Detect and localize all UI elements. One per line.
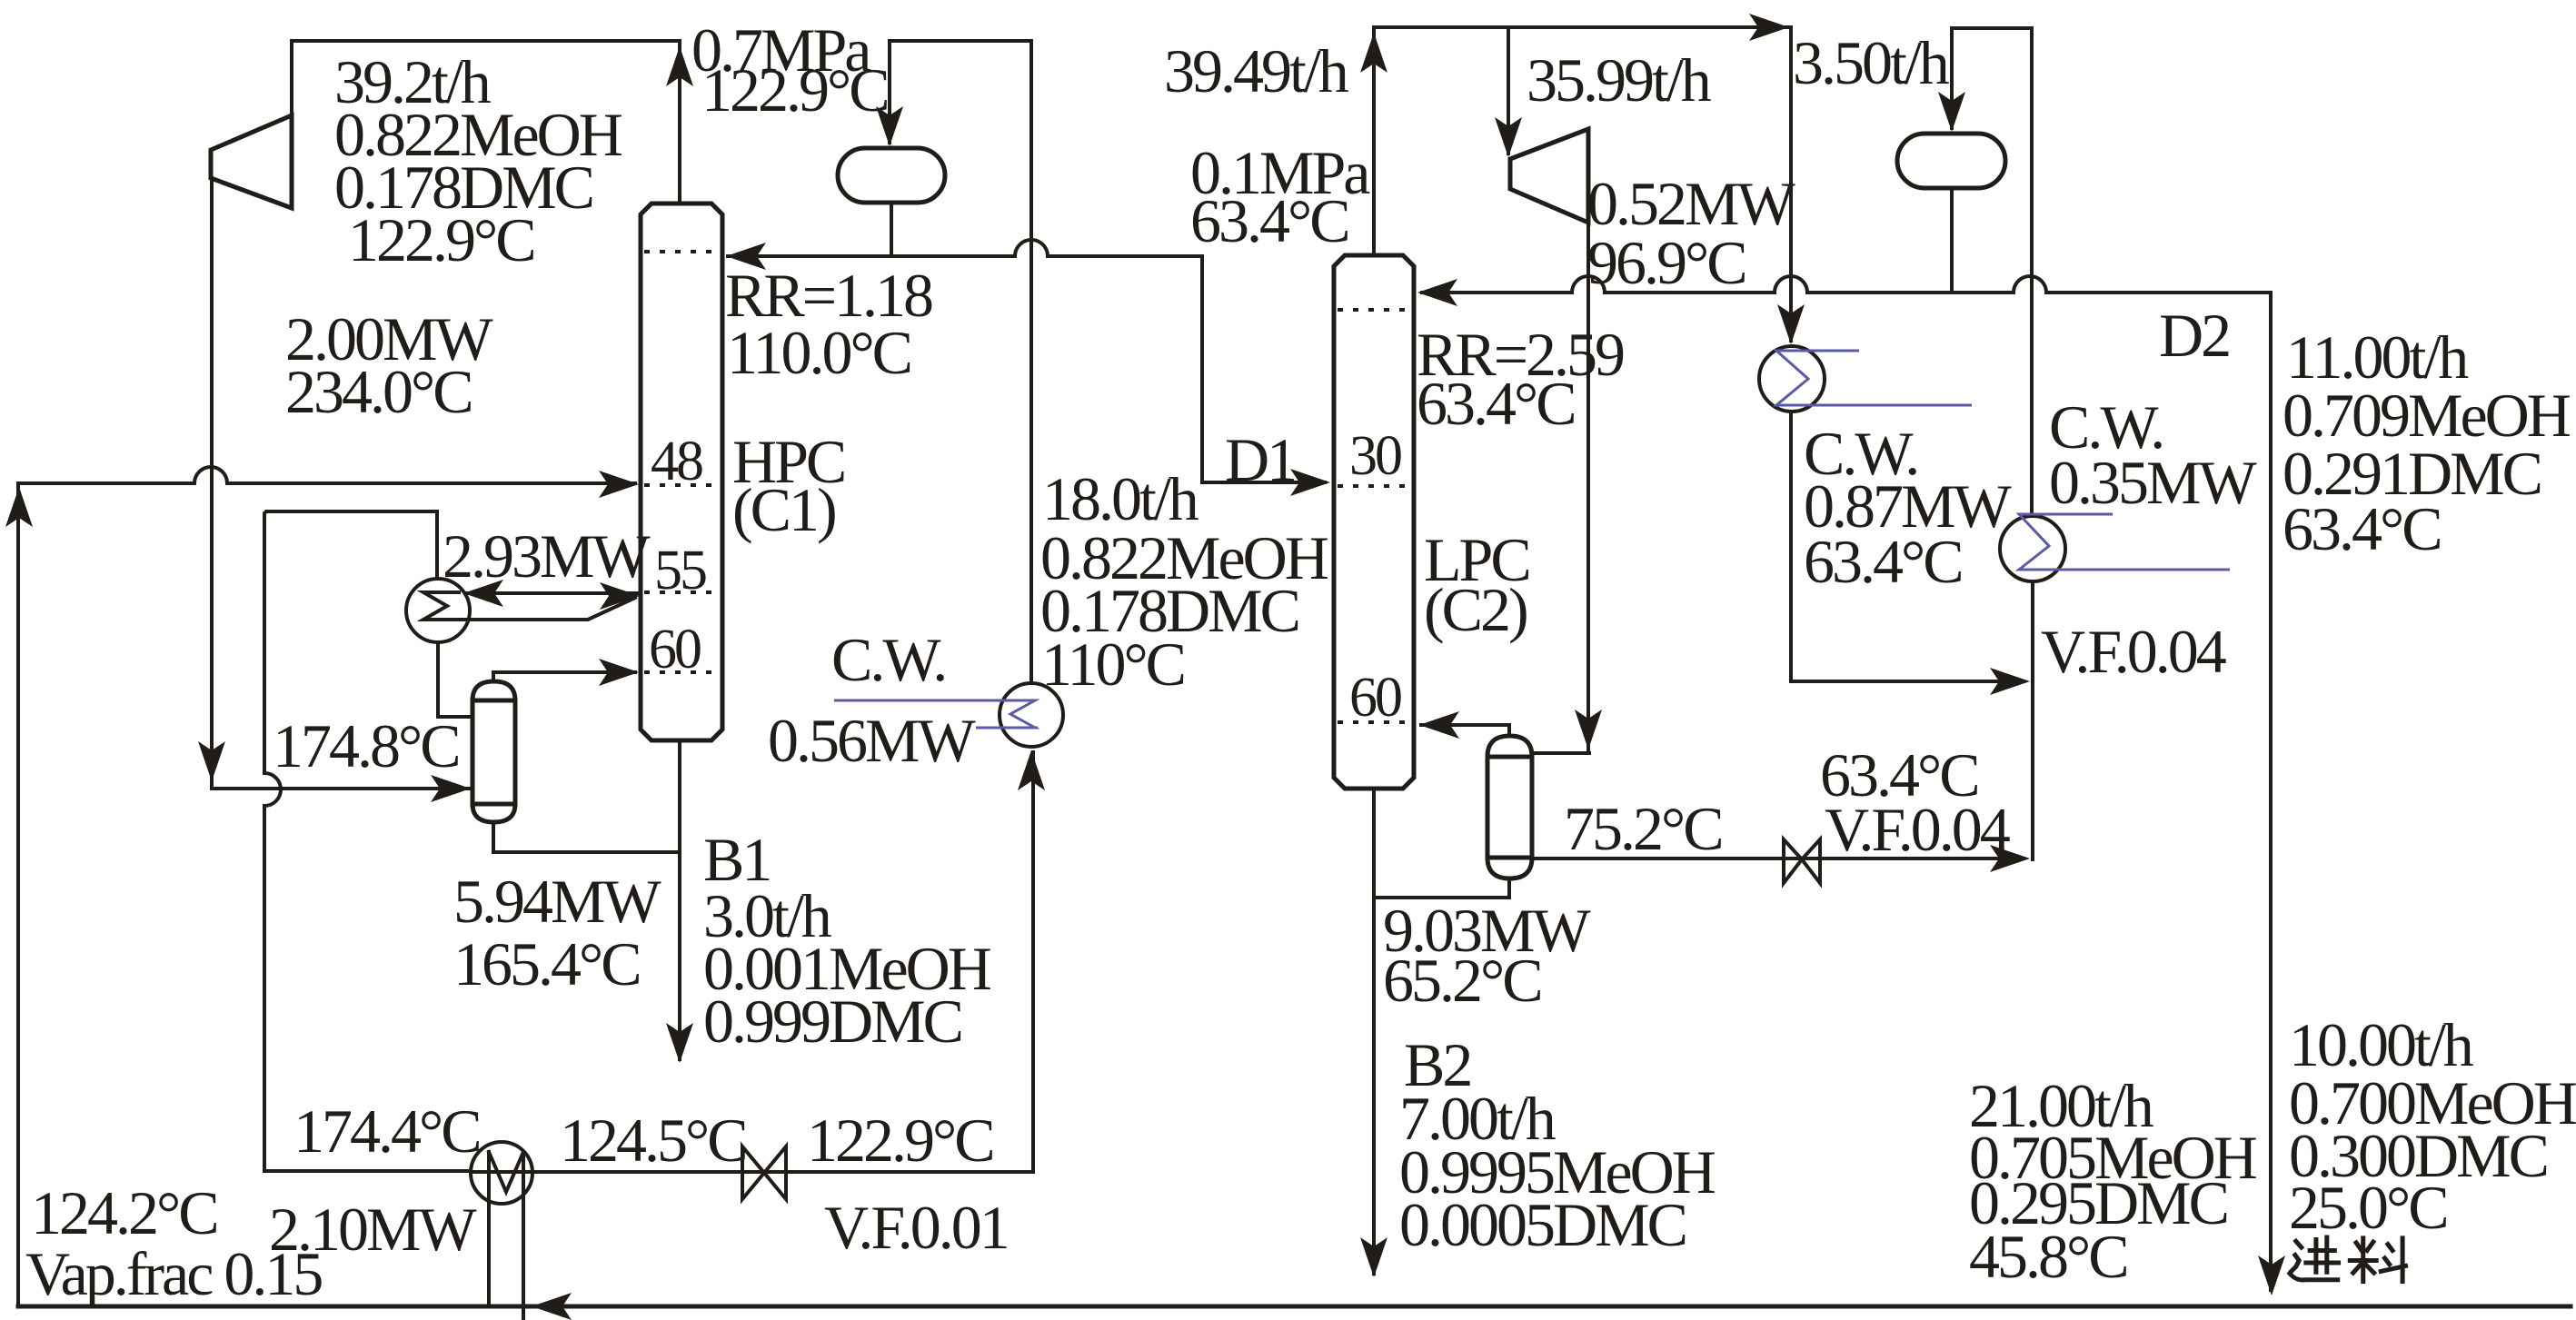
arrow reflux into C1	[726, 243, 766, 270]
arrow into drum D2	[1938, 92, 1965, 132]
svg-text:25.0°C: 25.0°C	[2289, 1173, 2447, 1242]
svg-text:165.4°C: 165.4°C	[453, 929, 640, 998]
arrow into reboiler E1	[431, 775, 471, 802]
svg-text:110°C: 110°C	[1041, 630, 1184, 699]
wire: drum D2 bottom stub	[1950, 188, 1954, 293]
arrow vapor into C1	[599, 659, 639, 686]
condenser E3 0.56MW circle	[1000, 683, 1063, 747]
wire: drum D2 inlet leg	[1950, 28, 1954, 128]
svg-text:174.4°C: 174.4°C	[293, 1097, 480, 1166]
svg-text:35.99t/h: 35.99t/h	[1527, 45, 1712, 114]
arrow reflux into C2	[1417, 279, 1457, 306]
wire: E5 vapor to C2 stage 60	[1421, 725, 1509, 736]
wire: condenser top riser and drum D1 inlet	[890, 41, 1031, 683]
wire: feed riser with hop over discharge line, to FEHE	[264, 511, 467, 1171]
arrow feed into C1	[599, 471, 639, 498]
wire: E4 outlet to junction on D2 riser	[1791, 412, 2024, 681]
wire: E6 riser segment below	[2031, 581, 2034, 859]
reflux drum D2	[1897, 134, 2005, 188]
svg-text:V.F.0.04: V.F.0.04	[2041, 617, 2226, 686]
arrow K1 discharge down	[198, 741, 225, 781]
arrow K2 discharge down	[1575, 710, 1602, 749]
svg-text:63.4°C: 63.4°C	[2283, 494, 2441, 563]
arrow into K2	[1495, 117, 1522, 157]
svg-text:124.5°C: 124.5°C	[560, 1106, 746, 1175]
svg-text:(C2): (C2)	[1424, 575, 1527, 644]
arrow recycle up	[5, 487, 33, 527]
arrow D1 into C2	[1290, 469, 1330, 496]
wire: C1 bottoms B1	[678, 740, 681, 1059]
reboiler E1 vessel	[472, 681, 515, 822]
svg-text:63.4°C: 63.4°C	[1417, 369, 1575, 438]
exchanger E4 0.87MW circle	[1759, 346, 1825, 412]
arrow pumparound return into C1	[600, 582, 640, 610]
arrow up into condenser	[1018, 750, 1045, 790]
C2 dotted stage lines	[1338, 310, 1410, 722]
reflux drum D1	[838, 148, 945, 203]
valve V2	[1784, 839, 1820, 883]
wire: reflux line into C1 with hop, corner to D1	[728, 240, 1325, 482]
svg-text:0.35MW: 0.35MW	[2049, 448, 2257, 517]
arrow into drum D1	[876, 106, 903, 146]
wire: left recycle riser to C1 stage 48	[18, 467, 635, 1306]
svg-text:0.56MW: 0.56MW	[768, 706, 976, 775]
svg-text:63.4°C: 63.4°C	[1804, 527, 1962, 596]
svg-text:30: 30	[1349, 425, 1401, 487]
svg-text:D1: D1	[1225, 425, 1295, 494]
valve V1	[742, 1146, 786, 1199]
label jinliao (feed) hanzi drawn	[2290, 1237, 2406, 1281]
exchanger E6 0.35MW circle	[2000, 516, 2065, 581]
arrow B1 down	[666, 1023, 693, 1063]
wire: C2 overhead up and right	[1374, 27, 1791, 341]
svg-text:45.8°C: 45.8°C	[1969, 1222, 2127, 1291]
svg-text:60: 60	[1349, 667, 1401, 729]
wire: C2 bottoms B2	[1372, 789, 1376, 1274]
wire: 75.2C line from E5 to valve V2 and junction	[1532, 857, 2024, 860]
wire: K2 discharge down to reboiler E5	[1586, 223, 1590, 749]
arrow C2 overhead up	[1360, 33, 1387, 73]
arrow B2 down	[1360, 1237, 1387, 1277]
svg-text:V.F.0.01: V.F.0.01	[824, 1193, 1008, 1262]
svg-text:48: 48	[651, 431, 702, 492]
svg-text:0.0005DMC: 0.0005DMC	[1399, 1190, 1686, 1259]
svg-text:Vap.frac 0.15: Vap.frac 0.15	[25, 1239, 322, 1308]
wire: E5 liquid to B2 junction	[1374, 878, 1509, 898]
svg-text:3.50t/h: 3.50t/h	[1793, 28, 1950, 97]
exchanger E2 pumparound circle 2.93MW	[406, 579, 470, 642]
C1 dotted stage lines	[644, 252, 719, 672]
svg-text:124.2°C: 124.2°C	[31, 1178, 217, 1247]
column C1 (HPC)	[641, 203, 722, 740]
svg-text:65.2°C: 65.2°C	[1383, 946, 1541, 1015]
svg-text:122.9°C: 122.9°C	[807, 1106, 993, 1175]
condenser E3 blue coolant lines	[834, 700, 1038, 728]
arrow overhead up	[666, 46, 693, 86]
compressor K1	[211, 115, 292, 208]
svg-text:D2: D2	[2159, 301, 2229, 370]
svg-text:174.8°C: 174.8°C	[273, 711, 459, 780]
wire: drum D2 loop top	[1952, 28, 2032, 514]
svg-text:60: 60	[649, 619, 701, 680]
svg-text:63.4°C: 63.4°C	[1190, 186, 1348, 255]
wire: E5 inlet stub	[1532, 751, 1589, 755]
reboiler E5 vessel	[1487, 736, 1532, 878]
svg-text:110.0°C: 110.0°C	[727, 318, 910, 387]
E4 blue coolant	[1776, 351, 1972, 405]
svg-text:0.999DMC: 0.999DMC	[703, 987, 961, 1056]
wire: FEHE hot line to valve V1 and condenser riser	[471, 752, 1033, 1172]
svg-text:(C1): (C1)	[732, 475, 835, 544]
svg-text:2.93MW: 2.93MW	[443, 521, 651, 591]
svg-text:C.W.: C.W.	[831, 625, 945, 694]
svg-text:39.49t/h: 39.49t/h	[1164, 36, 1349, 105]
FEHE cold side M tubes	[489, 1152, 523, 1319]
svg-text:55: 55	[654, 540, 706, 601]
wire: E1 vapor to C1 stage 60	[493, 672, 635, 681]
svg-text:V.F.0.04: V.F.0.04	[1825, 795, 2010, 864]
arrow pumparound into exchanger	[463, 580, 503, 607]
wire: C1 overhead to compressor K1	[292, 41, 680, 203]
arrow valve line join	[1990, 845, 2030, 872]
svg-text:96.9°C: 96.9°C	[1587, 228, 1746, 297]
wire: pumparound draw from C1 stage 55	[465, 591, 641, 595]
wire: bottom feed header	[18, 1305, 2571, 1309]
wire: exchanger E2 bottom to reboiler E1 shell	[438, 642, 470, 717]
arrow feed left along bottom	[532, 1293, 572, 1320]
svg-text:75.2°C: 75.2°C	[1564, 794, 1722, 863]
wire: drum D1 bottom stub	[890, 203, 893, 256]
arrow D2 recycle down onto feed header	[2258, 1255, 2285, 1295]
svg-text:234.0°C: 234.0°C	[285, 357, 472, 426]
arrow condensate join	[1990, 668, 2030, 695]
wire: C2 reflux header with hops and D2 feed drop	[1422, 276, 2271, 1290]
arrow down into exchanger E4	[1777, 304, 1805, 344]
FEHE E7 2.10MW circle	[471, 1142, 532, 1204]
wire: pumparound return with sigma coil	[423, 592, 635, 620]
arrow vapor into C2	[1419, 711, 1459, 739]
arrow top right	[1749, 14, 1789, 41]
svg-text:5.94MW: 5.94MW	[453, 867, 661, 936]
E6 blue coolant	[2019, 514, 2230, 570]
svg-text:122.9°C: 122.9°C	[348, 205, 534, 274]
column C2 (LPC)	[1334, 255, 1414, 789]
svg-text:122.9°C: 122.9°C	[701, 55, 888, 124]
wire: E1 liquid to B1 junction	[493, 822, 680, 852]
compressor K2	[1510, 129, 1588, 223]
wire: K2 inlet from top line	[1507, 27, 1510, 154]
wire: K1 discharge down and right to reboiler E1	[212, 178, 469, 789]
